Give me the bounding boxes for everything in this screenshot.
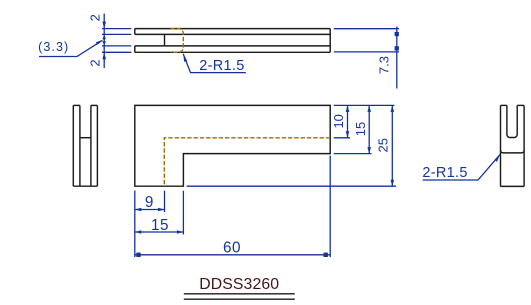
wire outer right <box>96 105 98 186</box>
ext line y137.8 <box>334 137 350 139</box>
svg-text:2: 2 <box>87 59 102 66</box>
front view: L-shaped outline <box>135 105 330 186</box>
wire arm bottom edge with fillets <box>501 150 525 153</box>
ext line bottom <box>334 51 399 53</box>
wire left edge upper <box>134 29 136 35</box>
wire top edge <box>135 28 330 30</box>
wire slot upper edge <box>135 33 330 35</box>
arrow up 10 <box>346 105 350 112</box>
svg-text:(3.3): (3.3) <box>38 40 69 54</box>
svg-text:DDSS3260: DDSS3260 <box>199 276 279 293</box>
arrow down 25 <box>391 180 395 187</box>
svg-text:2-R1.5: 2-R1.5 <box>422 165 467 181</box>
ext line x164.5 <box>164 191 166 212</box>
arrow down tip 45.9 <box>103 41 106 46</box>
dim dot 60 right <box>324 253 328 257</box>
svg-text:2-R1.5: 2-R1.5 <box>199 58 244 74</box>
dim dot upper <box>395 32 399 36</box>
wire left prong top <box>501 104 507 106</box>
wire inner left <box>79 105 81 186</box>
arrow up 15 <box>367 105 371 112</box>
hidden line slot floor front view <box>164 138 330 186</box>
ext line x134.8 <box>134 191 136 258</box>
wire slot right wall <box>516 105 518 134</box>
dim line vertical <box>396 27 398 89</box>
ext line x183.4 <box>182 191 184 235</box>
wire right prong top <box>517 104 524 106</box>
dim line 25 <box>391 105 393 186</box>
title underline 2 <box>184 298 295 300</box>
dim line 60 <box>135 254 330 256</box>
hidden line slot end top view <box>171 29 184 53</box>
dim line 9 <box>135 209 165 211</box>
svg-text:60: 60 <box>223 240 241 257</box>
leader arrowhead 2-R1.5 right <box>495 154 501 162</box>
wire outer right <box>523 105 525 186</box>
dim line 15 <box>135 231 184 233</box>
ext line top <box>334 28 399 30</box>
leader arrowhead (3.3) <box>96 40 104 45</box>
svg-text:10: 10 <box>331 114 346 128</box>
leader 2-R1.5 top view <box>183 54 246 73</box>
wire right prong top <box>91 104 98 106</box>
svg-text:9: 9 <box>145 194 154 211</box>
wire outer left <box>500 105 502 186</box>
ext line y186.2 long <box>187 185 397 187</box>
wire left prong top <box>73 104 80 106</box>
arrow right 15 <box>177 230 184 234</box>
dim line 10 <box>347 105 349 137</box>
left side view <box>73 105 97 186</box>
wire outer left <box>72 105 74 186</box>
svg-text:15: 15 <box>353 122 368 136</box>
title underline 1 <box>184 293 295 295</box>
arrow left 9 <box>135 208 142 212</box>
leader 2-R1.5 right view <box>423 155 500 180</box>
svg-text:25: 25 <box>375 138 390 152</box>
ext line top y105.4 <box>334 104 395 106</box>
ext line y34.4 <box>102 33 131 35</box>
ext line y45.9 <box>102 45 131 47</box>
right dimension stack 10 15 25 <box>187 105 397 186</box>
ext line y28.6 <box>102 28 131 30</box>
wire slot end wall <box>164 34 166 46</box>
dim dot 60 left <box>136 253 140 257</box>
leader arrowhead 2-R1.5 top <box>183 54 187 62</box>
wire slot floor edge <box>80 137 91 139</box>
wire slot lower edge <box>135 45 330 47</box>
wire bottom edge <box>73 185 97 187</box>
ext line y52.3 <box>102 51 131 53</box>
wire bottom edge <box>135 51 330 53</box>
dimension group 2 / (3.3) / 2 <box>39 14 131 69</box>
wire right edge <box>329 29 331 53</box>
svg-text:2: 2 <box>87 14 102 21</box>
leader (3.3) underline <box>39 41 102 57</box>
arrow right 9 <box>158 208 165 212</box>
top view: plan of bracket <box>135 29 330 53</box>
slot rounded bottom R1.5 <box>507 135 517 138</box>
arrow left 15 <box>135 230 142 234</box>
wire slot left wall <box>506 105 508 134</box>
ext line x330.2 <box>329 156 331 257</box>
dim line 15 <box>368 105 370 153</box>
dim line vertical <box>103 14 105 69</box>
arrow down tip 28.6 <box>102 22 106 29</box>
wire left edge lower <box>134 46 136 52</box>
svg-text:15: 15 <box>151 217 169 234</box>
arrow down 10 <box>346 131 350 138</box>
ext line y153.6 <box>334 153 372 155</box>
bottom dimension stack 9 15 60 <box>135 156 330 257</box>
arrow up tip 52.3 <box>102 52 106 59</box>
dimension 7.3 <box>334 27 399 89</box>
dim dot lower <box>395 46 399 50</box>
arrow up tip 34.4 <box>103 34 106 39</box>
wire inner right <box>90 105 92 186</box>
right side view <box>501 105 525 186</box>
arrow up 25 <box>391 105 395 112</box>
svg-text:7.3: 7.3 <box>376 56 391 74</box>
wire bottom edge <box>501 185 525 187</box>
arrow down 15 <box>367 147 371 154</box>
